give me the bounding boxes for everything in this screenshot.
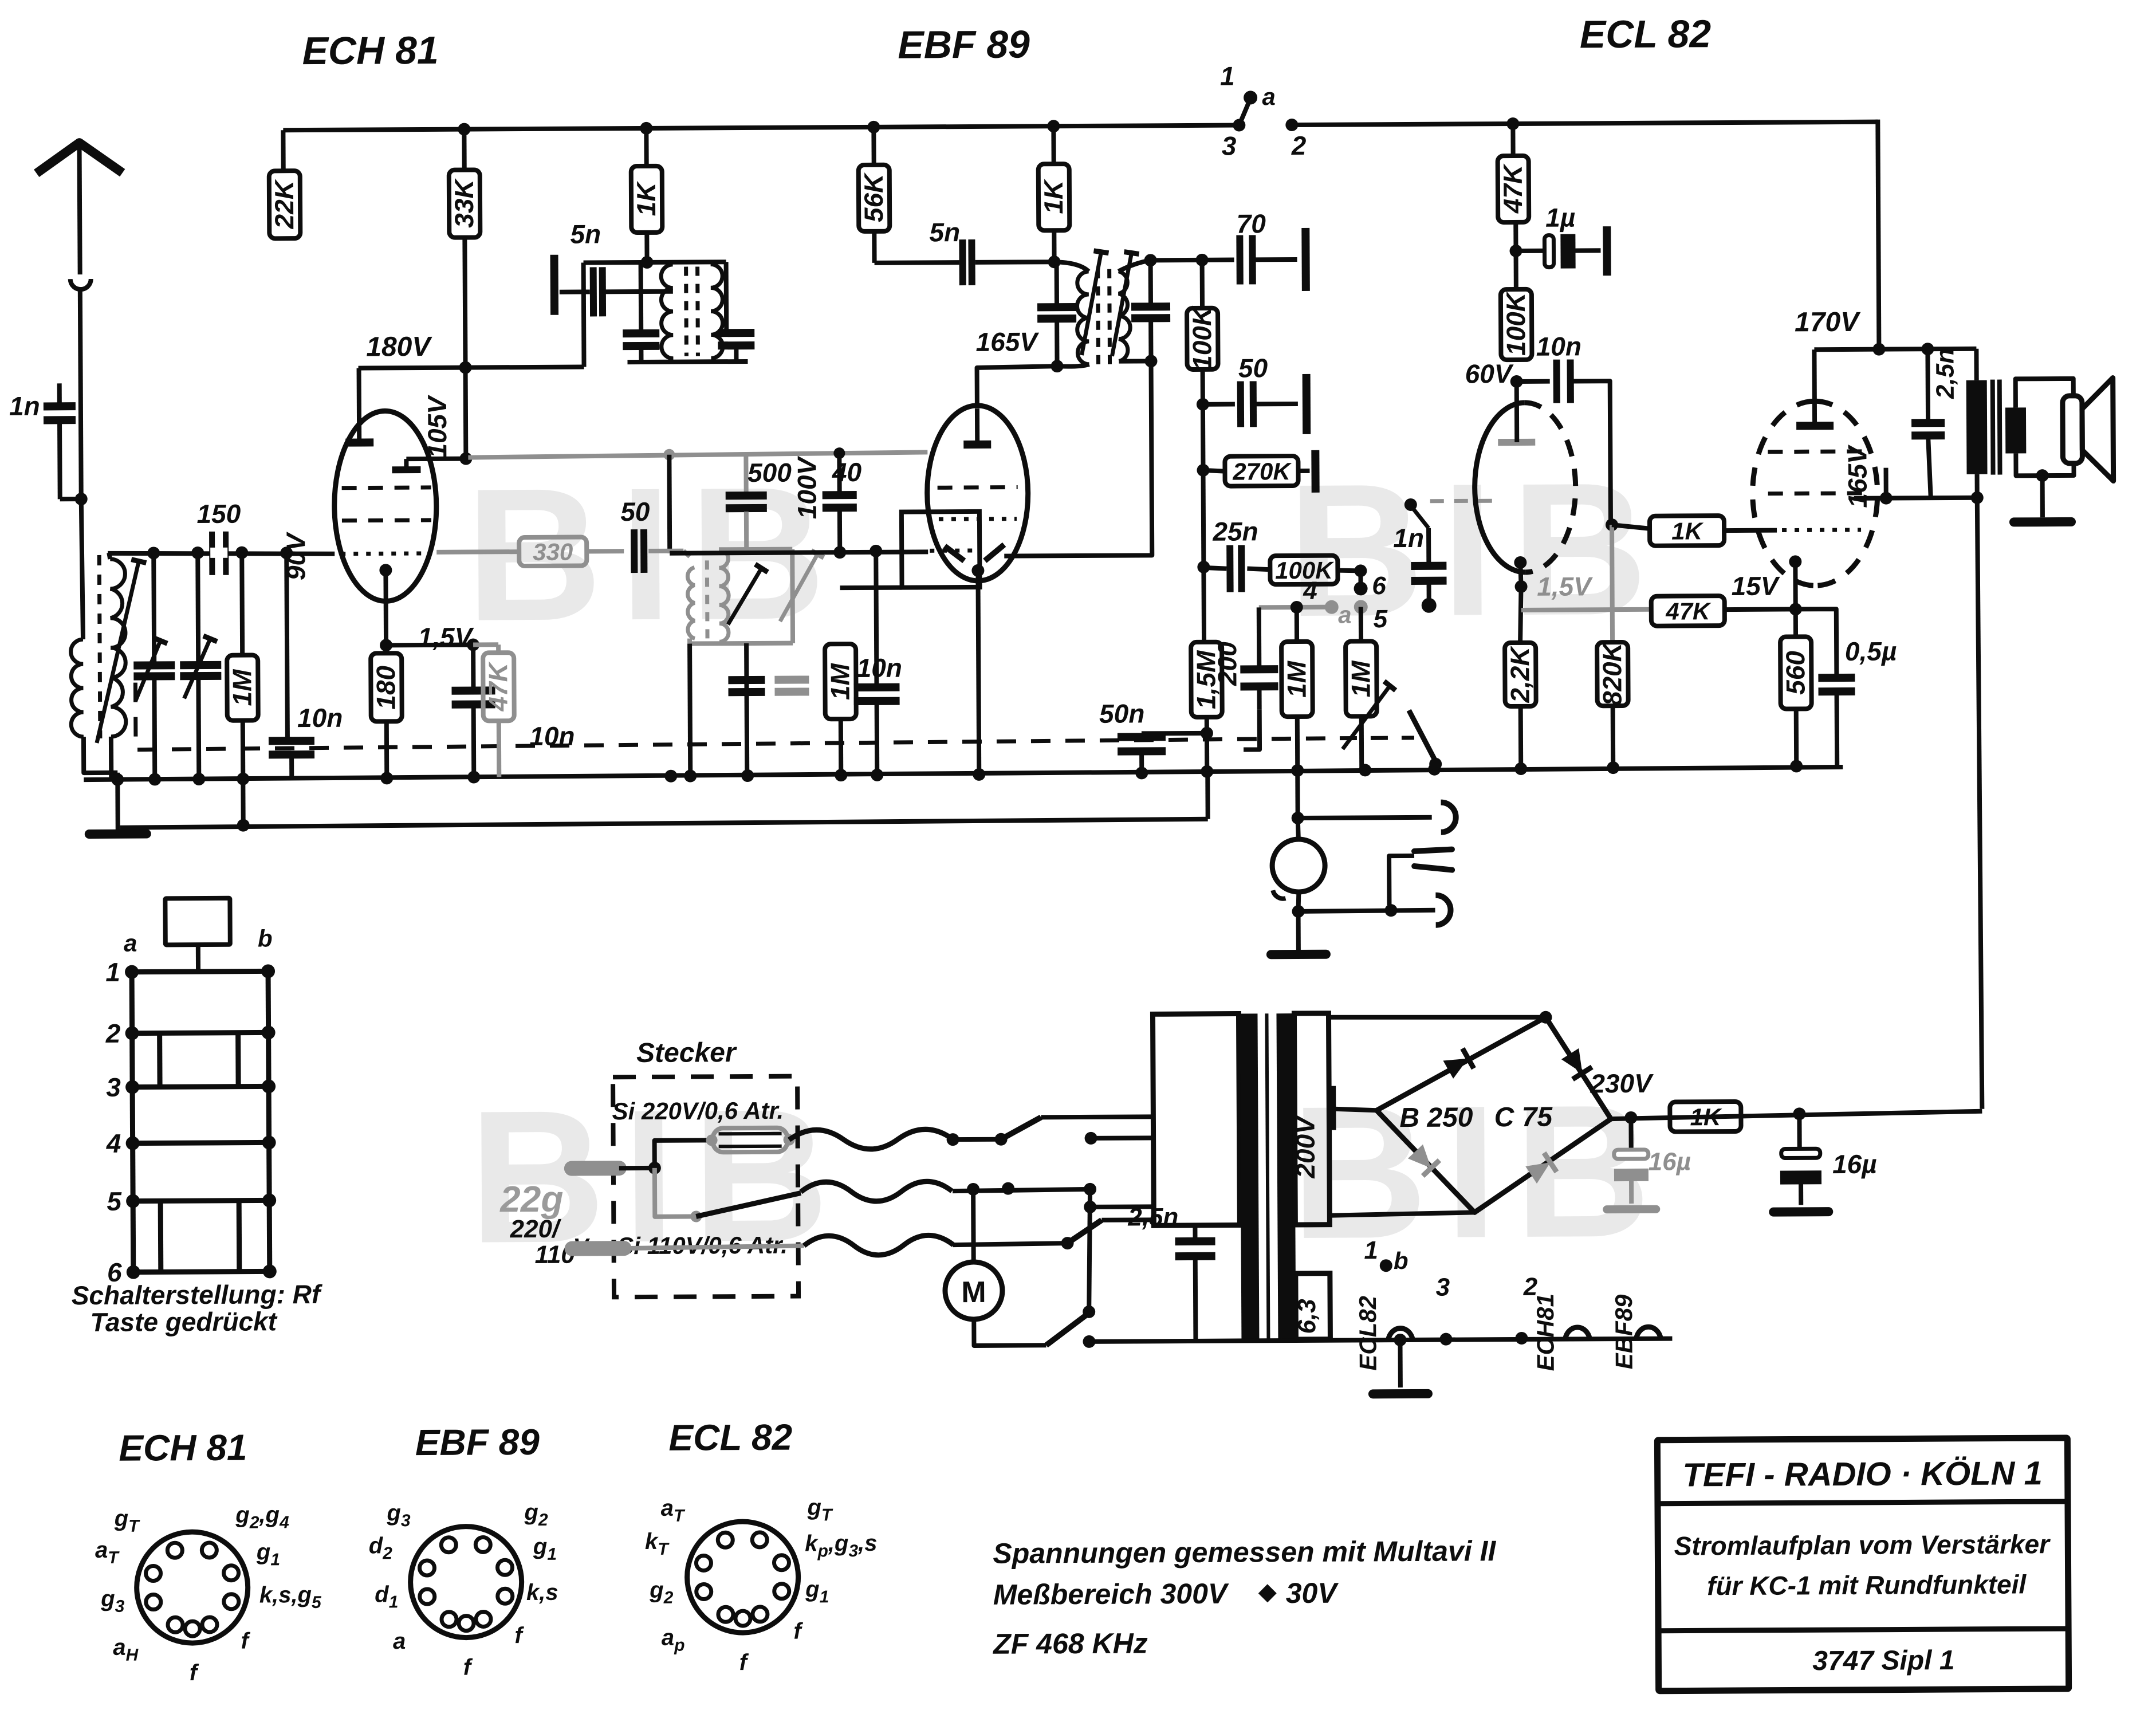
svg-text:100K: 100K <box>1501 291 1531 356</box>
svg-text:180: 180 <box>371 665 400 709</box>
svg-text:270K: 270K <box>1232 458 1292 485</box>
svg-text:40: 40 <box>832 457 862 487</box>
svg-text:60V: 60V <box>1465 359 1514 388</box>
svg-text:15V: 15V <box>1732 571 1780 601</box>
svg-text:6: 6 <box>1372 572 1386 600</box>
svg-text:3: 3 <box>1222 131 1237 161</box>
svg-text:Stromlaufplan vom Verstärker: Stromlaufplan vom Verstärker <box>1674 1529 2051 1560</box>
svg-text:ECH81: ECH81 <box>1532 1294 1559 1371</box>
svg-text:a: a <box>393 1629 406 1654</box>
svg-text:EBF89: EBF89 <box>1610 1294 1638 1370</box>
svg-text:b: b <box>1394 1247 1409 1274</box>
svg-text:150: 150 <box>196 499 241 529</box>
svg-text:1,5V: 1,5V <box>418 622 474 652</box>
svg-text:1M: 1M <box>825 662 855 700</box>
svg-text:B 250: B 250 <box>1399 1102 1473 1133</box>
svg-text:Taste gedrückt: Taste gedrückt <box>90 1306 277 1337</box>
svg-text:ECL 82: ECL 82 <box>1580 12 1712 56</box>
svg-text:170V: 170V <box>1795 307 1861 338</box>
svg-text:25n: 25n <box>1212 516 1258 546</box>
svg-text:TEFI - RADIO · KÖLN 1: TEFI - RADIO · KÖLN 1 <box>1682 1455 2043 1493</box>
svg-text:100K: 100K <box>1187 305 1217 370</box>
svg-text:3: 3 <box>1436 1273 1450 1302</box>
svg-text:230V: 230V <box>1590 1068 1654 1099</box>
svg-text:560: 560 <box>1780 651 1810 695</box>
svg-text:Si 220V/0,6 Atr.: Si 220V/0,6 Atr. <box>612 1097 784 1125</box>
svg-text:5n: 5n <box>929 217 960 247</box>
svg-text:16µ: 16µ <box>1832 1149 1877 1179</box>
svg-text:1n: 1n <box>9 391 40 420</box>
svg-text:ECH 81: ECH 81 <box>302 29 439 73</box>
svg-text:10n: 10n <box>297 703 343 733</box>
svg-text:1: 1 <box>1220 61 1235 91</box>
svg-text:C 75: C 75 <box>1494 1102 1553 1133</box>
svg-text:1K: 1K <box>631 181 661 217</box>
svg-text:330: 330 <box>533 538 573 565</box>
svg-text:100V: 100V <box>792 455 822 519</box>
svg-text:1: 1 <box>1364 1236 1378 1264</box>
svg-text:4: 4 <box>106 1129 121 1158</box>
svg-text:a: a <box>1262 83 1276 110</box>
svg-text:165V: 165V <box>975 327 1039 357</box>
svg-text:47K: 47K <box>1498 163 1528 214</box>
svg-text:50: 50 <box>620 497 650 526</box>
svg-text:1K: 1K <box>1690 1103 1722 1130</box>
svg-text:220/: 220/ <box>509 1215 562 1243</box>
svg-text:1K: 1K <box>1038 179 1068 214</box>
svg-text:105V: 105V <box>422 395 453 458</box>
svg-text:Schalterstellung: Rf: Schalterstellung: Rf <box>72 1279 323 1310</box>
svg-text:1µ: 1µ <box>1545 202 1575 232</box>
svg-text:180V: 180V <box>366 332 432 363</box>
svg-text:2,5n: 2,5n <box>1931 348 1959 399</box>
svg-text:5: 5 <box>107 1186 122 1216</box>
svg-text:1n: 1n <box>1393 523 1424 553</box>
svg-text:ECH 81: ECH 81 <box>119 1427 247 1469</box>
svg-text:5: 5 <box>1373 605 1387 633</box>
svg-text:22K: 22K <box>269 179 299 229</box>
svg-text:für KC-1 mit Rundfunkteil: für KC-1 mit Rundfunkteil <box>1707 1569 2027 1601</box>
svg-text:70: 70 <box>1237 209 1266 238</box>
svg-text:10n: 10n <box>529 721 575 751</box>
svg-text:30V: 30V <box>1286 1577 1339 1609</box>
svg-text:k,s: k,s <box>526 1580 558 1605</box>
svg-text:b: b <box>258 925 273 952</box>
svg-text:56K: 56K <box>859 172 888 222</box>
svg-text:10n: 10n <box>1536 331 1582 361</box>
svg-text:EBF 89: EBF 89 <box>898 22 1030 66</box>
svg-text:33K: 33K <box>449 178 479 227</box>
svg-text:ECL 82: ECL 82 <box>668 1417 792 1459</box>
svg-text:Spannungen gemessen mit Multav: Spannungen gemessen mit Multavi II <box>993 1535 1496 1570</box>
svg-text:200V: 200V <box>1290 1115 1320 1179</box>
svg-text:2: 2 <box>1291 131 1307 160</box>
svg-text:16µ: 16µ <box>1649 1147 1691 1176</box>
svg-text:Meßbereich 300V: Meßbereich 300V <box>993 1578 1229 1611</box>
svg-text:47K: 47K <box>1665 597 1712 624</box>
svg-text:M: M <box>961 1276 986 1309</box>
svg-text:47K: 47K <box>483 661 513 711</box>
svg-text:6,3: 6,3 <box>1293 1299 1321 1334</box>
svg-text:1: 1 <box>105 957 120 987</box>
svg-text:a: a <box>1338 601 1352 628</box>
svg-text:ZF 468 KHz: ZF 468 KHz <box>992 1627 1148 1660</box>
svg-text:1M: 1M <box>227 669 257 706</box>
svg-text:4: 4 <box>1303 577 1317 605</box>
svg-text:500: 500 <box>747 458 792 488</box>
svg-text:Stecker: Stecker <box>636 1037 737 1068</box>
svg-text:ECL82: ECL82 <box>1354 1296 1382 1371</box>
svg-text:1M: 1M <box>1281 660 1311 698</box>
svg-text:3747 Sipl 1: 3747 Sipl 1 <box>1812 1645 1954 1676</box>
svg-text:50n: 50n <box>1099 698 1145 728</box>
svg-text:EBF 89: EBF 89 <box>415 1421 540 1463</box>
svg-text:10n: 10n <box>857 653 903 683</box>
svg-text:0,5µ: 0,5µ <box>1845 636 1897 666</box>
svg-text:3: 3 <box>106 1072 121 1102</box>
svg-text:1,5V: 1,5V <box>1537 571 1593 602</box>
svg-text:50: 50 <box>1238 353 1268 383</box>
svg-text:a: a <box>124 930 137 957</box>
svg-text:2: 2 <box>105 1019 121 1048</box>
svg-text:2,2K: 2,2K <box>1505 645 1535 703</box>
svg-text:22g: 22g <box>499 1178 564 1220</box>
svg-text:1K: 1K <box>1671 517 1704 544</box>
svg-text:200: 200 <box>1212 642 1242 686</box>
svg-text:1M: 1M <box>1345 660 1375 698</box>
svg-text:5n: 5n <box>570 219 601 249</box>
svg-text:90V: 90V <box>281 532 310 580</box>
svg-text:820K: 820K <box>1597 641 1627 706</box>
